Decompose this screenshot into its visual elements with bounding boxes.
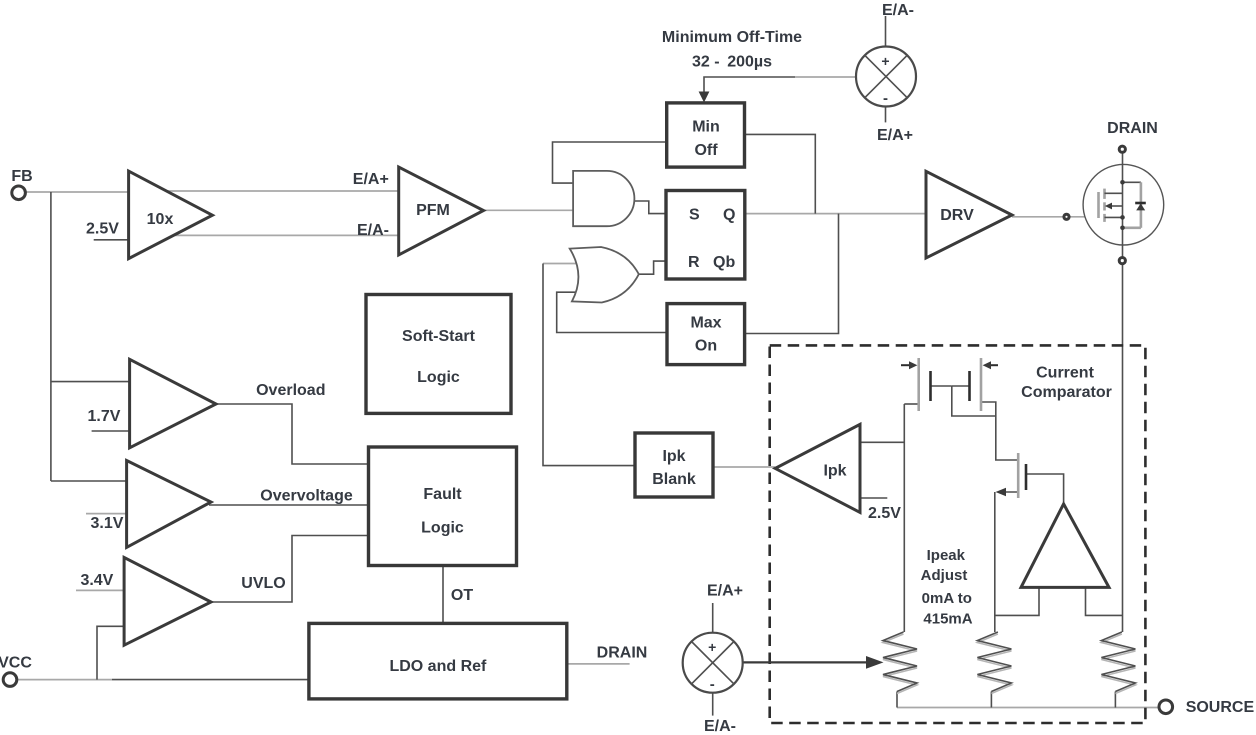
wire T2 gate lead — [952, 385, 970, 387]
OR gate — [570, 247, 639, 303]
block SR latch — [666, 191, 745, 280]
arrow Ipeak adjust into resistor R1 — [743, 661, 872, 663]
wire T3 gate lead to comparator output — [1026, 474, 1064, 502]
svg-text:E/A-: E/A- — [704, 718, 736, 735]
comparator PFM — [399, 167, 484, 255]
wire Overload comparator output to Fault Logic — [214, 404, 369, 464]
svg-text:+: + — [708, 639, 716, 655]
svg-text:Comparator: Comparator — [1021, 384, 1112, 401]
wire AND gate output to S input — [634, 201, 666, 214]
svg-text:E/A+: E/A+ — [707, 583, 743, 600]
wire E/A+ net from 10x to PFM — [140, 190, 399, 192]
svg-text:0mA to: 0mA to — [922, 590, 972, 607]
svg-text:S: S — [689, 207, 700, 224]
wire 3.4V reference stub — [76, 589, 124, 591]
svg-text:1.7V: 1.7V — [88, 408, 121, 425]
wire T3 source vertical to resistor R2 — [994, 492, 996, 632]
wire comparator right input leg — [1086, 587, 1123, 615]
dashed current comparator boundary box — [770, 345, 1146, 723]
MOSFET power switch circle — [1083, 164, 1164, 245]
wire mirror gate junction — [952, 386, 996, 416]
svg-text:Ipk: Ipk — [823, 463, 846, 480]
wire Min Off output feedback to Q net — [746, 134, 816, 213]
wire OR gate output to R input — [639, 261, 666, 274]
wire top multiplier stubs — [885, 16, 887, 47]
svg-text:Max: Max — [690, 315, 721, 332]
svg-text:R: R — [688, 254, 700, 271]
svg-text:FB: FB — [11, 168, 32, 185]
MOSFET channel dashes — [1103, 189, 1106, 199]
svg-text:PFM: PFM — [416, 202, 450, 219]
svg-text:DRAIN: DRAIN — [1107, 120, 1158, 137]
terminal circle MOSFET source — [1119, 258, 1125, 264]
svg-text:Qb: Qb — [713, 254, 735, 271]
wire OR gate vertical to Ipk Blank — [543, 264, 635, 466]
svg-text:Min: Min — [692, 119, 720, 136]
wire comparator left input leg — [995, 587, 1039, 615]
svg-text:On: On — [695, 338, 717, 355]
wire OR gate bottom input from Max On — [557, 292, 667, 332]
wire mirror T1 drain vertical to resistor R1 — [903, 404, 905, 632]
block LDO and Ref — [309, 623, 567, 699]
wire VCC branch to 3.4V comparator — [97, 626, 124, 679]
wire AND gate top input from Min Off — [553, 142, 667, 183]
wire E/A- net from 10x to PFM — [150, 234, 399, 236]
svg-text:E/A+: E/A+ — [877, 127, 913, 144]
wire bottom multiplier stubs — [712, 603, 714, 633]
svg-text:3.4V: 3.4V — [80, 572, 113, 589]
wire FB vertical bus — [50, 192, 52, 481]
transistor T3 — [1018, 453, 1026, 498]
wire OT from Fault Logic to LDO — [442, 566, 444, 624]
wire mirror T1 terminal — [904, 403, 918, 405]
svg-text:VCC: VCC — [0, 655, 32, 672]
wire T1 gate lead — [931, 385, 952, 387]
wire PFM output to AND gate — [484, 209, 574, 211]
svg-text:LDO and Ref: LDO and Ref — [389, 658, 487, 675]
multiplier bottom (Ipeak adjust) — [683, 633, 743, 693]
svg-text:10x: 10x — [147, 211, 174, 228]
MOSFET center drain-source line — [1122, 152, 1124, 258]
svg-text:Soft-Start: Soft-Start — [402, 328, 476, 345]
svg-text:Ipk: Ipk — [662, 448, 685, 465]
wire MOSFET source vertical down to resistor R3 — [1122, 263, 1124, 632]
MOSFET gate electrode — [1097, 192, 1100, 218]
wire OR gate top input — [543, 263, 582, 265]
svg-text:DRV: DRV — [940, 207, 974, 224]
wire Overvoltage comparator output to Fault Logic — [209, 504, 369, 506]
svg-text:E/A-: E/A- — [357, 222, 389, 239]
buffer DRV — [926, 171, 1012, 258]
svg-text:2.5V: 2.5V — [868, 505, 901, 522]
svg-text:Minimum Off-Time: Minimum Off-Time — [662, 29, 802, 46]
svg-text:UVLO: UVLO — [241, 575, 285, 592]
wire Ipk comparator upper input — [860, 441, 904, 443]
mirror transistor T2 — [970, 358, 999, 411]
MOSFET body diode branch — [1123, 181, 1141, 183]
AND gate — [573, 171, 634, 226]
svg-text:3.1V: 3.1V — [91, 515, 124, 532]
svg-text:E/A+: E/A+ — [353, 171, 389, 188]
comparator 3.4V UVLO — [124, 558, 211, 646]
wire 1.7V reference stub — [92, 430, 130, 432]
svg-text:-: - — [883, 90, 888, 107]
block Soft-Start Logic — [366, 295, 511, 414]
terminal circle gate wire — [1064, 214, 1069, 219]
comparator current sense (points up) — [1021, 504, 1109, 588]
wire FB branch to 1.7V comparator — [51, 381, 130, 383]
arrow into Min Off top — [699, 92, 710, 103]
junction dots — [1120, 180, 1125, 185]
terminal SOURCE — [1159, 700, 1173, 714]
svg-text:Current: Current — [1036, 364, 1094, 381]
svg-text:Off: Off — [694, 142, 718, 159]
resistor R3 — [1101, 634, 1135, 694]
resistor R1 — [883, 634, 917, 694]
wire multiplier to min-off elbow gray part — [795, 76, 856, 78]
block Min Off — [667, 103, 745, 167]
wire DRAIN output of LDO — [567, 663, 630, 665]
svg-text:Overvoltage: Overvoltage — [260, 488, 353, 505]
block Max On — [667, 304, 745, 365]
svg-text:Adjust: Adjust — [921, 567, 968, 584]
wire Max On output feedback to Q net — [745, 214, 839, 334]
comparator Ipk — [775, 424, 860, 512]
wire T3 source with arrow — [1002, 491, 1018, 493]
wire resistor bottom stubs — [896, 692, 898, 708]
mirror transistor T1 — [901, 358, 931, 411]
comparator 1.7V overload — [130, 359, 216, 448]
MOSFET body arrow — [1111, 205, 1123, 207]
svg-text:Fault: Fault — [423, 486, 462, 503]
wire 3.1V reference stub — [86, 513, 127, 515]
svg-text:Logic: Logic — [421, 520, 464, 537]
wire VCC to LDO — [17, 679, 112, 681]
wire gate lead after terminal circle — [1070, 216, 1099, 218]
svg-text:+: + — [881, 53, 889, 69]
svg-text:E/A-: E/A- — [882, 2, 914, 19]
svg-text:Blank: Blank — [652, 471, 696, 488]
wire 2.5V reference stub at Ipk — [860, 497, 887, 499]
terminal FB — [12, 186, 26, 200]
wire FB to 10x amp — [26, 191, 129, 193]
wire FB branch to 3.1V comparator — [51, 480, 127, 482]
svg-text:32 - 200µs: 32 - 200µs — [692, 54, 772, 71]
resistor R2 — [977, 634, 1011, 694]
svg-text:415mA: 415mA — [923, 611, 972, 628]
svg-text:Overload: Overload — [256, 382, 325, 399]
body diode symbol — [1135, 202, 1146, 205]
wire Q output net from latch to DRV — [745, 213, 926, 215]
svg-text:DRAIN: DRAIN — [597, 645, 648, 662]
svg-text:2.5V: 2.5V — [86, 221, 119, 238]
wire DRV output to MOSFET gate — [1012, 216, 1064, 218]
svg-text:SOURCE: SOURCE — [1186, 699, 1255, 716]
svg-text:Ipeak: Ipeak — [927, 547, 966, 564]
block Ipk Blank — [635, 433, 713, 497]
svg-text:-: - — [710, 676, 715, 693]
wire source bottom rail — [897, 707, 1159, 709]
wire 2.5V reference stub at 10x amp — [94, 239, 129, 241]
MOSFET drain connect — [1105, 192, 1123, 194]
wire Ipk Blank output to Ipk comparator — [713, 466, 775, 468]
wire UVLO comparator output to Fault Logic — [209, 536, 369, 603]
op-amp 10x error amplifier — [129, 171, 213, 259]
wire multiplier to min-off dark part — [704, 77, 795, 92]
terminal VCC — [3, 673, 17, 687]
comparator 3.1V overvoltage — [127, 461, 211, 548]
terminal circle DRAIN top — [1119, 146, 1125, 152]
multiplier top (Minimum Off-Time modulator) — [856, 47, 916, 108]
svg-text:OT: OT — [451, 587, 473, 604]
wire mirror T2 terminal and drop to T3 — [981, 402, 1018, 460]
svg-text:Q: Q — [723, 207, 735, 224]
MOSFET source connect — [1105, 216, 1123, 218]
svg-text:Logic: Logic — [417, 369, 460, 386]
block Fault Logic — [369, 447, 517, 566]
